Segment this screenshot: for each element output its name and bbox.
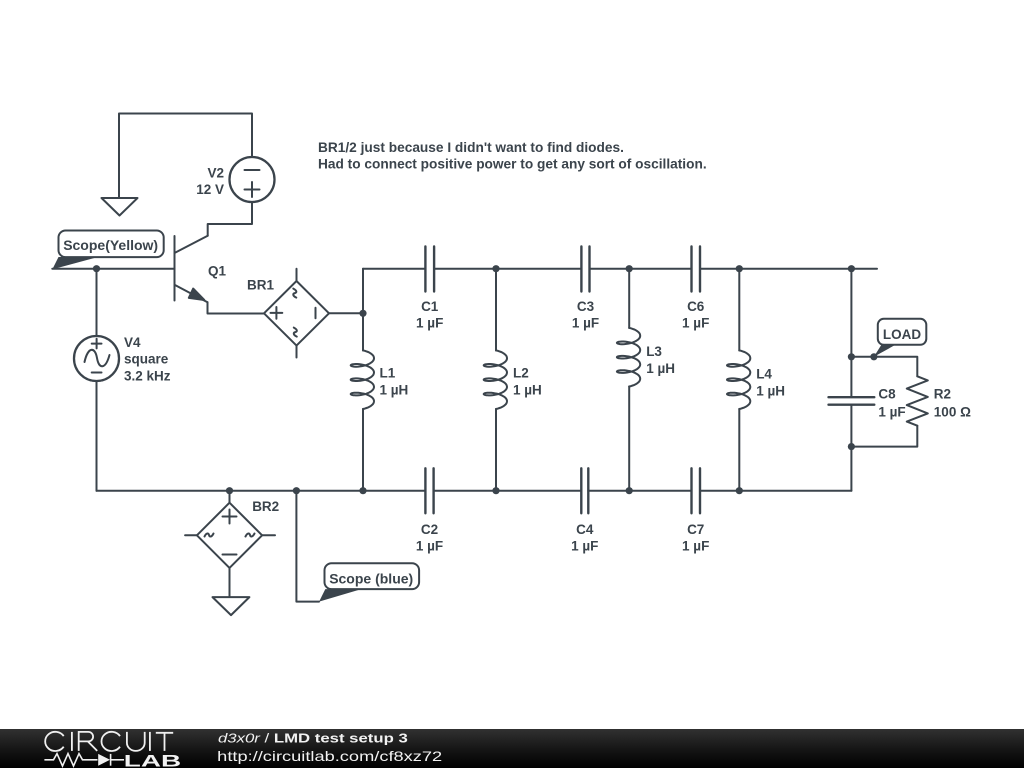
callout Scope (blue): [319, 589, 361, 602]
node L4 bottom: [736, 487, 743, 494]
wire bottom rail: [97, 490, 852, 492]
ground (top-left): [102, 198, 138, 216]
svg-text:1 µH: 1 µH: [646, 361, 675, 376]
svg-text:Had to connect positive power: Had to connect positive power to get any…: [318, 157, 707, 172]
capacitor C2: [425, 468, 433, 513]
svg-text:1 µF: 1 µF: [571, 538, 598, 553]
svg-text:C1: C1: [421, 299, 439, 314]
node L3 bottom: [626, 487, 633, 494]
wire scope-yellow / base: [52, 268, 174, 270]
svg-text:1 µH: 1 µH: [513, 382, 542, 397]
capacitor C3: [581, 247, 589, 292]
node L4 top: [736, 265, 743, 272]
wire L3 column: [628, 269, 630, 491]
svg-text:C8: C8: [878, 387, 896, 402]
svg-text:C2: C2: [421, 522, 438, 537]
wire V2 to Q1 collector: [208, 202, 252, 236]
svg-text:C4: C4: [576, 522, 594, 537]
svg-text:d3x0r / LMD test setup 3: d3x0r / LMD test setup 3: [218, 731, 408, 746]
svg-text:Scope (blue): Scope (blue): [329, 571, 413, 587]
node L3 top: [626, 265, 633, 272]
rectifier BR1: [296, 269, 298, 281]
svg-text:1 µF: 1 µF: [878, 405, 905, 420]
rectifier BR2: [229, 491, 231, 503]
svg-text:square: square: [124, 352, 169, 367]
wire R2 branch: [851, 357, 917, 447]
svg-text:C6: C6: [687, 299, 705, 314]
svg-text:V4: V4: [124, 335, 141, 350]
node BR2 top: [226, 487, 233, 494]
svg-text:1 µH: 1 µH: [380, 382, 409, 397]
svg-text:1 µF: 1 µF: [416, 538, 443, 553]
svg-text:BR1/2 just because I didn't wa: BR1/2 just because I didn't want to find…: [318, 140, 624, 155]
svg-text:1 µF: 1 µF: [572, 316, 599, 331]
svg-text:Q1: Q1: [208, 264, 227, 279]
transistor Q1: [174, 236, 176, 301]
node load top: [848, 265, 855, 272]
wire V4 top: [96, 269, 98, 336]
capacitor C6: [692, 247, 701, 292]
inductor L2: [484, 350, 507, 409]
voltage source V2: [230, 157, 275, 202]
svg-text:L1: L1: [380, 365, 396, 380]
svg-text:BR2: BR2: [252, 499, 279, 514]
node load tap: [870, 353, 877, 360]
capacitor C4: [581, 468, 588, 513]
callout LOAD: [874, 345, 896, 357]
svg-text:100 Ω: 100 Ω: [934, 405, 971, 420]
voltage source V4: [74, 336, 119, 381]
svg-text:C3: C3: [577, 299, 595, 314]
svg-text:LAB: LAB: [124, 752, 181, 768]
svg-text:1 µF: 1 µF: [416, 316, 443, 331]
svg-text:1 µF: 1 µF: [682, 538, 709, 553]
logo resistor-diode: [44, 754, 124, 766]
capacitor C8: [829, 397, 875, 405]
svg-text:C7: C7: [687, 522, 704, 537]
wire Q1 emitter to BR1: [208, 302, 265, 313]
wire top-left loop: [119, 114, 252, 199]
svg-text:L4: L4: [756, 367, 772, 382]
wire scope-blue: [296, 491, 319, 602]
svg-text:12 V: 12 V: [196, 182, 224, 197]
inductor L1: [351, 350, 374, 409]
wire V4 bottom: [96, 381, 98, 491]
node BR1 out: [359, 310, 366, 317]
svg-text:L2: L2: [513, 365, 529, 380]
svg-text:V2: V2: [207, 166, 224, 181]
resistor R2: [907, 376, 928, 425]
svg-text:BR1: BR1: [247, 278, 274, 293]
svg-text:LOAD: LOAD: [883, 327, 921, 342]
node L1 bottom: [359, 487, 366, 494]
capacitor C1: [425, 247, 434, 292]
svg-text:3.2 kHz: 3.2 kHz: [124, 369, 171, 384]
capacitor C7: [692, 468, 701, 513]
wire load column: [850, 269, 852, 491]
wire L4 column: [738, 269, 740, 491]
svg-text:1 µF: 1 µF: [682, 316, 709, 331]
node L2 bottom: [492, 487, 499, 494]
node scope-blue: [293, 487, 300, 494]
svg-text:1 µH: 1 µH: [756, 384, 785, 399]
ground (below BR2): [213, 597, 250, 615]
svg-text:L3: L3: [646, 344, 662, 359]
svg-text:R2: R2: [934, 387, 951, 402]
wire L1 column: [362, 269, 364, 491]
logo CIRCUIT (hand-drawn thin glyphs): [45, 732, 173, 751]
wire L2 column: [495, 269, 497, 491]
inductor L4: [727, 350, 750, 409]
node (base / V4 junction): [93, 265, 100, 272]
svg-text:Scope(Yellow): Scope(Yellow): [63, 237, 158, 253]
callout Scope(Yellow): [52, 257, 98, 269]
node load mid: [848, 353, 855, 360]
wire top rail: [363, 268, 877, 270]
node load bottom: [848, 443, 855, 450]
inductor L3: [617, 328, 640, 387]
node L2 top: [492, 265, 499, 272]
svg-text:http://circuitlab.com/cf8xz72: http://circuitlab.com/cf8xz72: [217, 748, 442, 764]
